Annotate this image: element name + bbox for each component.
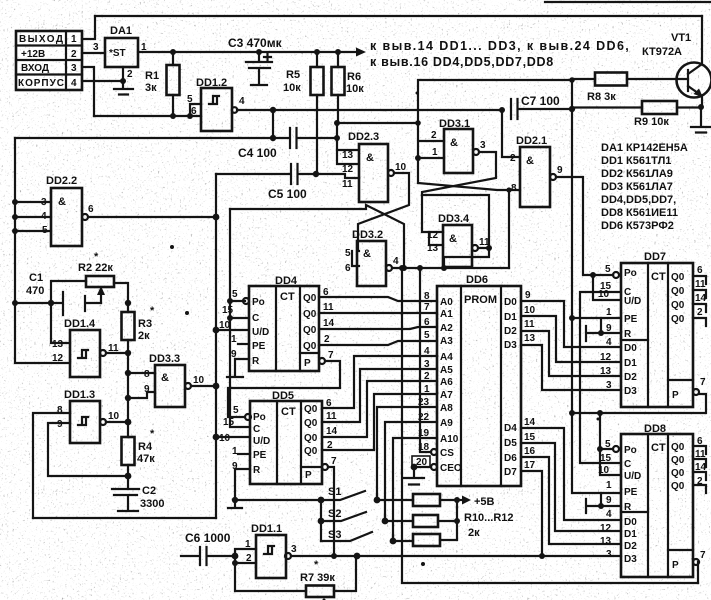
svg-text:C2: C2: [142, 485, 156, 497]
svg-text:ВЫХОД: ВЫХОД: [19, 34, 63, 45]
svg-text:8: 8: [424, 291, 430, 302]
svg-text:R3: R3: [138, 318, 152, 330]
svg-text:3к: 3к: [145, 82, 157, 94]
wire node up to R8: [572, 79, 595, 109]
wire DD3.1 out to DD3.4 input: [422, 152, 496, 232]
switch S1: [232, 486, 381, 503]
svg-text:DD2.1: DD2.1: [516, 135, 547, 147]
svg-text:CT: CT: [651, 271, 666, 283]
gate DD2.2: [41, 175, 94, 246]
svg-text:C7 100: C7 100: [521, 94, 560, 108]
svg-text:3300: 3300: [140, 498, 164, 510]
voltage regulator DA1: [105, 25, 147, 80]
wire DD3.3 out to x216: [191, 385, 216, 387]
svg-text:Q0: Q0: [671, 314, 685, 325]
gate DD3.4: [427, 213, 490, 267]
svg-text:4: 4: [393, 256, 399, 267]
svg-text:DD2.2: DD2.2: [46, 175, 77, 187]
wire DD2.1 out to DD7 Po: [556, 177, 613, 275]
wire node down to DD2.1 pin2: [502, 110, 520, 157]
svg-text:3: 3: [480, 140, 486, 151]
wire bottom bus y518: [33, 517, 216, 519]
resistor R4 47k: [122, 428, 156, 489]
svg-text:12: 12: [52, 353, 64, 364]
wire DD7 U/D tie to Po: [593, 275, 621, 300]
svg-text:1: 1: [432, 147, 438, 158]
svg-text:ВХОД: ВХОД: [21, 63, 49, 74]
svg-text:C1: C1: [29, 272, 43, 284]
svg-text:R5: R5: [286, 69, 300, 81]
svg-text:1: 1: [232, 446, 238, 457]
svg-text:11: 11: [342, 179, 353, 190]
svg-text:&: &: [363, 248, 371, 260]
svg-text:Q0: Q0: [303, 341, 317, 352]
svg-text:11: 11: [524, 319, 535, 330]
svg-text:Q0: Q0: [303, 293, 317, 304]
wire DD1.2 out y110: [237, 109, 502, 111]
svg-text:*: *: [150, 428, 155, 440]
svg-text:R10...R12: R10...R12: [464, 512, 514, 524]
wire DD1.3 pin8 to bottom bus: [33, 413, 70, 518]
svg-text:9: 9: [606, 495, 612, 506]
svg-text:R: R: [624, 502, 632, 513]
svg-text:D5: D5: [504, 438, 517, 449]
svg-text:2: 2: [431, 130, 437, 141]
svg-text:R: R: [624, 329, 632, 340]
svg-text:5: 5: [605, 439, 611, 450]
svg-text:A6: A6: [440, 377, 453, 388]
trigger DD1.4: [52, 318, 119, 377]
wire DD3.3 inputs tied: [128, 373, 155, 398]
svg-text:1: 1: [71, 34, 77, 45]
svg-text:КТ972А: КТ972А: [642, 46, 682, 58]
data lines D4-D7 to DD8: [521, 428, 621, 520]
svg-text:D3: D3: [624, 554, 637, 565]
svg-text:A1: A1: [440, 309, 453, 320]
wire x418 vertical and y80 line to R8 node: [418, 80, 572, 183]
svg-text:C5 100: C5 100: [268, 187, 307, 201]
svg-text:13: 13: [52, 339, 64, 350]
trigger DD1.3: [57, 389, 120, 443]
svg-text:D0: D0: [624, 343, 637, 354]
wire left rail x15: [15, 138, 70, 363]
svg-text:PE: PE: [624, 314, 638, 325]
svg-text:U/D: U/D: [252, 327, 269, 338]
wire DD8 Q stubs: [693, 446, 706, 493]
svg-text:PROM: PROM: [464, 294, 497, 306]
wire DD1.2 pin5 loop: [190, 104, 201, 116]
svg-text:Q0: Q0: [304, 404, 318, 415]
svg-text:+5В: +5В: [474, 496, 495, 508]
resistor R5 10k: [283, 49, 324, 174]
gate DD3.1: [431, 118, 486, 173]
svg-text:D1: D1: [624, 358, 637, 369]
svg-text:A2: A2: [440, 323, 453, 334]
svg-text:6: 6: [191, 106, 197, 117]
svg-text:12: 12: [600, 352, 612, 363]
svg-text:CS: CS: [440, 448, 454, 459]
capacitor C1 470: [15, 272, 101, 315]
resistor R9 10k: [572, 101, 701, 128]
svg-text:D1: D1: [624, 529, 637, 540]
svg-text:D6: D6: [504, 453, 517, 464]
svg-text:DD3 К561ЛА7: DD3 К561ЛА7: [601, 181, 673, 193]
svg-text:47к: 47к: [137, 453, 155, 465]
wire x402 net to bottom bus: [402, 268, 698, 583]
svg-text:7: 7: [328, 350, 334, 361]
svg-text:DD3.4: DD3.4: [438, 213, 470, 225]
svg-text:DD2.3: DD2.3: [348, 131, 379, 143]
wire row4 to DA1 pin2: [82, 80, 123, 82]
svg-text:DD2 К561ЛА9: DD2 К561ЛА9: [601, 168, 673, 180]
svg-text:7: 7: [331, 456, 337, 467]
svg-text:3: 3: [424, 359, 430, 370]
counter DD8: [598, 423, 707, 577]
svg-text:Q0: Q0: [304, 418, 318, 429]
wire DD4 R ground: [227, 359, 249, 377]
svg-text:12: 12: [342, 164, 354, 175]
wire DD3.4 out loop to y268 node: [422, 195, 489, 248]
svg-text:13: 13: [342, 150, 354, 161]
svg-text:1: 1: [606, 480, 612, 491]
trigger DD1.1: [245, 523, 297, 578]
svg-text:D1: D1: [504, 312, 517, 323]
wire U/D bus x216: [215, 174, 217, 518]
wire top bus: [95, 15, 702, 17]
svg-text:2: 2: [71, 49, 77, 60]
svg-text:P: P: [672, 390, 679, 401]
wire DD3.4 loop cross to DD2.1 pin8: [418, 183, 520, 268]
svg-text:CT: CT: [280, 291, 295, 303]
resistor R8 3k: [587, 73, 688, 104]
svg-text:*ST: *ST: [109, 48, 126, 59]
svg-text:6: 6: [345, 263, 351, 274]
wire switch common vertical x321: [320, 500, 322, 541]
capacitor C6 1000: [181, 531, 235, 565]
counter DD5: [219, 390, 338, 484]
svg-text:4: 4: [424, 346, 430, 357]
svg-text:Q0: Q0: [303, 309, 317, 320]
svg-text:Po: Po: [252, 297, 265, 308]
wire DD2.3 out to latch cross to DD3.2: [358, 173, 409, 251]
svg-text:3: 3: [606, 549, 612, 560]
svg-text:10к: 10к: [283, 82, 301, 94]
svg-text:S1: S1: [328, 486, 341, 498]
svg-text:1: 1: [606, 307, 612, 318]
wire DD4 PE stub: [238, 343, 249, 345]
connector X1 block: [16, 31, 82, 90]
resistor R7 39k: [235, 556, 356, 597]
svg-text:470: 470: [26, 285, 44, 297]
svg-text:Q0: Q0: [671, 442, 685, 453]
address lines DD5 to A4-A7: [322, 356, 437, 408]
svg-text:13: 13: [600, 366, 612, 377]
svg-text:D2: D2: [624, 541, 637, 552]
svg-text:PE: PE: [252, 341, 266, 352]
wire DD7 R bar: [586, 326, 621, 341]
svg-text:10: 10: [219, 433, 231, 444]
capacitor C3 470mk: [228, 36, 283, 85]
wire DD8 R bar: [586, 499, 621, 513]
svg-text:10: 10: [598, 465, 610, 476]
wire DD3.2 out node: [392, 267, 509, 269]
svg-text:C: C: [252, 313, 259, 324]
svg-text:DD6: DD6: [466, 274, 488, 286]
data lines D0-D3 to DD7: [521, 301, 621, 347]
wire gnd bus y116: [94, 115, 201, 117]
svg-text:13: 13: [600, 536, 612, 547]
svg-text:CEO: CEO: [440, 463, 462, 474]
svg-text:&: &: [526, 155, 534, 167]
svg-text:2: 2: [697, 307, 703, 318]
svg-text:13: 13: [524, 333, 536, 344]
svg-text:A3: A3: [440, 336, 453, 347]
wire main bus y52: [138, 51, 358, 53]
wire CEO ground: [404, 467, 431, 485]
svg-text:15: 15: [524, 432, 536, 443]
wire R6 vertical to DD2.3 pins: [337, 123, 359, 164]
svg-text:6: 6: [424, 317, 430, 328]
svg-text:D3: D3: [504, 340, 517, 351]
svg-text:3: 3: [71, 63, 77, 74]
svg-text:Q0: Q0: [304, 446, 318, 457]
svg-text:A4: A4: [440, 352, 453, 363]
svg-text:1: 1: [231, 334, 237, 345]
svg-text:A7: A7: [440, 390, 453, 401]
svg-text:P: P: [672, 560, 679, 571]
svg-text:5: 5: [424, 330, 430, 341]
svg-text:5: 5: [187, 94, 193, 105]
svg-text:к выв.16 DD4,DD5,DD7,DD8: к выв.16 DD4,DD5,DD7,DD8: [370, 55, 554, 69]
svg-text:C4 100: C4 100: [238, 146, 277, 160]
switch S3: [321, 529, 396, 544]
wire branch x600 to DD8 Po and U/D: [600, 413, 621, 475]
svg-text:PE: PE: [624, 487, 638, 498]
svg-text:15: 15: [600, 453, 612, 464]
svg-text:2к: 2к: [468, 527, 480, 539]
svg-text:A0: A0: [440, 297, 453, 308]
svg-text:Po: Po: [624, 445, 637, 456]
svg-text:15: 15: [223, 417, 235, 428]
svg-text:DA1 КР142ЕН5А: DA1 КР142ЕН5А: [601, 142, 688, 154]
svg-text:D2: D2: [624, 372, 637, 383]
parts list: [601, 142, 688, 232]
svg-text:5: 5: [605, 264, 611, 275]
gate DD2.3: [342, 131, 407, 202]
counter DD4: [219, 275, 335, 371]
svg-text:U/D: U/D: [624, 296, 641, 307]
capacitor C5 100: [216, 164, 319, 201]
svg-text:DD1.1: DD1.1: [251, 523, 282, 535]
svg-text:Q0: Q0: [671, 300, 685, 311]
wire DD1.4 out to R3 bottom: [106, 352, 128, 354]
svg-text:3: 3: [93, 42, 99, 53]
wire C6 to DD1.1 pins: [235, 549, 256, 563]
svg-text:8: 8: [144, 369, 150, 380]
svg-text:4: 4: [239, 96, 245, 107]
svg-text:C3 470мк: C3 470мк: [228, 36, 283, 50]
svg-text:A5: A5: [440, 365, 453, 376]
svg-text:14: 14: [326, 426, 338, 437]
svg-text:Po: Po: [624, 268, 637, 279]
switch S2: [321, 508, 388, 524]
svg-text:P: P: [305, 470, 312, 481]
svg-text:11: 11: [695, 279, 706, 290]
address lines DD4 to A0-A3: [319, 297, 437, 301]
svg-text:DD3.2: DD3.2: [352, 229, 383, 241]
svg-text:14: 14: [524, 417, 536, 428]
wire DD5 R ground: [228, 469, 250, 508]
wire row3 down to gnd bus: [82, 67, 94, 116]
wire P-load net x572: [572, 109, 621, 493]
wire DD2.2 out to x216 bus: [88, 216, 216, 218]
svg-text:R9 10к: R9 10к: [634, 116, 669, 128]
wire DD8 P to bottom bus: [698, 562, 699, 583]
PROM DD6: [412, 274, 536, 486]
wire CS up to DD3.2 out net: [420, 268, 431, 452]
svg-text:17: 17: [524, 460, 536, 471]
svg-text:3: 3: [606, 380, 612, 391]
svg-text:9: 9: [557, 165, 563, 176]
svg-text:Q0: Q0: [304, 433, 318, 444]
wires switches to A8 A9 A10: [377, 407, 437, 500]
svg-text:4: 4: [71, 78, 77, 89]
gate DD3.3: [144, 353, 205, 407]
svg-text:2к: 2к: [138, 330, 150, 342]
wire DD5 U/D from x216: [216, 436, 250, 438]
counter DD7: [598, 251, 707, 407]
wire C clock net x580 DD7.C to DD8.C: [580, 292, 621, 463]
svg-text:D3: D3: [624, 386, 637, 397]
svg-text:DD4,DD5,DD7,: DD4,DD5,DD7,: [601, 194, 676, 206]
svg-text:U/D: U/D: [253, 436, 270, 447]
svg-text:DD1.4: DD1.4: [64, 318, 96, 330]
svg-text:10: 10: [108, 411, 120, 422]
svg-text:2: 2: [127, 69, 133, 80]
svg-text:Q0: Q0: [671, 468, 685, 479]
wire DA1 pin2 down and ground: [114, 67, 133, 95]
svg-text:14: 14: [323, 318, 335, 329]
svg-text:1: 1: [424, 384, 430, 395]
svg-text:*: *: [314, 559, 319, 571]
svg-text:D4: D4: [504, 423, 517, 434]
svg-text:8: 8: [57, 405, 63, 416]
wire y123 R6 node to x418: [338, 122, 418, 124]
wire DD1.4 pin13 from C1 node: [51, 303, 70, 343]
svg-text:A8: A8: [440, 403, 453, 414]
svg-text:&: &: [161, 372, 169, 384]
svg-text:11: 11: [326, 411, 337, 422]
svg-text:4: 4: [606, 337, 612, 348]
svg-text:Q0: Q0: [303, 325, 317, 336]
svg-text:Q0: Q0: [671, 455, 685, 466]
speckles: [416, 92, 419, 95]
capacitor C7 100: [511, 94, 572, 119]
svg-text:14: 14: [695, 293, 707, 304]
trimmer R2 22k: [51, 251, 128, 303]
svg-text:7: 7: [424, 302, 430, 313]
svg-text:D0: D0: [624, 517, 637, 528]
svg-text:5: 5: [345, 248, 351, 259]
svg-text:R2 22к: R2 22к: [78, 262, 113, 274]
svg-text:к выв.14 DD1... DD3, к выв.24: к выв.14 DD1... DD3, к выв.24 DD6,: [370, 39, 630, 53]
svg-text:6: 6: [88, 204, 94, 215]
svg-text:C: C: [253, 424, 260, 435]
svg-text:DD1 К561ТЛ1: DD1 К561ТЛ1: [601, 155, 671, 167]
wire DD1.1 out y556 to DD8 D3: [291, 555, 621, 557]
svg-text:6: 6: [697, 265, 703, 276]
svg-text:R: R: [253, 465, 261, 476]
scan border artifact top right: [545, 1, 711, 3]
svg-text:10к: 10к: [346, 83, 364, 95]
svg-text:DD6 К573РФ2: DD6 К573РФ2: [601, 220, 674, 232]
wire row2 to DA1 pin3: [82, 52, 105, 54]
wire DD5 P down to y556: [328, 467, 334, 556]
wire DD7 Q stubs: [693, 276, 706, 326]
svg-text:2: 2: [324, 334, 330, 345]
svg-text:DD7: DD7: [644, 251, 666, 263]
svg-text:R6: R6: [347, 71, 361, 83]
resistor R1 3k: [145, 49, 180, 116]
wire clock vertical x230: [230, 209, 250, 427]
svg-text:R: R: [252, 356, 260, 367]
svg-text:A9: A9: [440, 418, 453, 429]
svg-text:D2: D2: [504, 326, 517, 337]
capacitor C2 3300: [112, 485, 164, 511]
svg-text:DA1: DA1: [110, 25, 132, 37]
svg-text:10: 10: [524, 305, 536, 316]
svg-text:CT: CT: [651, 442, 666, 454]
transistor VT1 KT972A: [642, 16, 711, 133]
svg-text:*: *: [94, 251, 99, 263]
svg-text:+12В: +12В: [21, 49, 45, 60]
svg-text:&: &: [58, 196, 66, 208]
wire DD5 PE stub: [238, 453, 250, 455]
svg-text:*: *: [150, 305, 155, 317]
trigger DD1.2: [187, 77, 245, 131]
svg-text:DD8 К561ИЕ11: DD8 К561ИЕ11: [601, 207, 678, 219]
wire row1 to top bus: [82, 16, 95, 39]
wire DD1.3 pin9 loop: [48, 423, 128, 476]
svg-text:Q0: Q0: [671, 286, 685, 297]
svg-text:PE: PE: [253, 450, 267, 461]
gate DD2.1: [510, 135, 563, 207]
svg-text:10: 10: [598, 289, 610, 300]
svg-text:3: 3: [291, 544, 297, 555]
svg-text:U/D: U/D: [624, 471, 641, 482]
svg-text:&: &: [366, 152, 374, 164]
resistor R6 10k: [332, 49, 365, 123]
svg-text:R4: R4: [138, 441, 153, 453]
svg-text:S3: S3: [328, 529, 341, 541]
svg-text:S2: S2: [328, 508, 341, 520]
svg-text:DD1.3: DD1.3: [64, 389, 95, 401]
svg-text:15: 15: [222, 305, 234, 316]
wire C5 to DD2.3 pin11: [316, 174, 359, 178]
svg-text:12: 12: [600, 523, 612, 534]
svg-text:CT: CT: [281, 406, 296, 418]
svg-text:КОРПУС: КОРПУС: [18, 78, 64, 89]
svg-text:11: 11: [323, 302, 334, 313]
svg-text:5: 5: [233, 405, 239, 416]
svg-text:7: 7: [700, 377, 706, 388]
wire DD4 U/D from x216: [216, 329, 249, 331]
svg-text:DD3.3: DD3.3: [149, 353, 180, 365]
wire DD2.2 inputs from left rail: [15, 202, 51, 231]
svg-text:&: &: [449, 233, 457, 245]
capacitor C4 100: [15, 110, 340, 160]
svg-text:&: &: [450, 137, 458, 149]
